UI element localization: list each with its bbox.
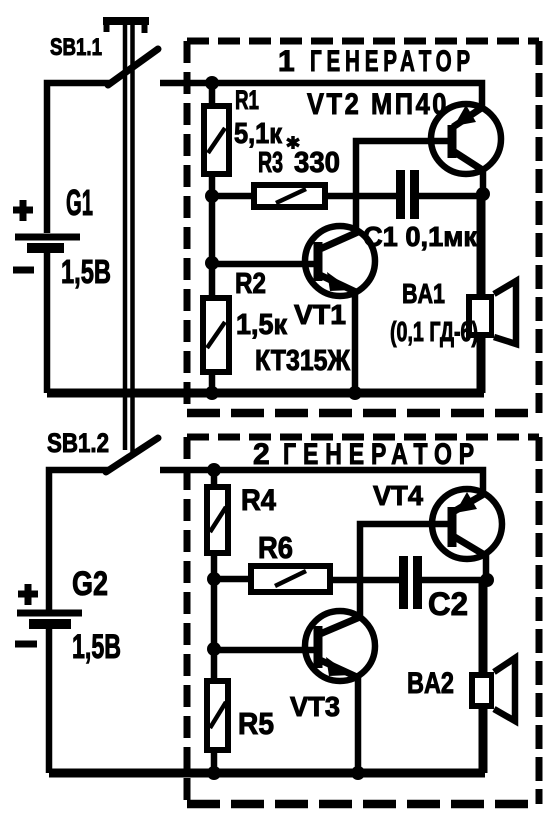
- wire C2 to collector node: [422, 577, 486, 584]
- VT1 emitter diagonal: [320, 275, 356, 292]
- transistor VT1 circle: [305, 226, 375, 296]
- resistor R3: [254, 185, 325, 207]
- bottom rail generator 1: [47, 389, 484, 398]
- VT1 base bar: [314, 242, 323, 281]
- battery G2 long plate (+): [17, 610, 82, 617]
- svg-text:R6: R6: [258, 530, 293, 565]
- wire R4 top: [211, 470, 218, 487]
- VT4 base bar: [448, 507, 457, 547]
- svg-text:G2: G2: [72, 565, 108, 603]
- VT2 collector diagonal: [453, 151, 484, 171]
- mechanical link line right: [130, 25, 135, 452]
- dashed enclosure box 1: [187, 41, 539, 413]
- wire VT1 base: [212, 261, 315, 268]
- wire: battery G2 positive to switch SB1.2 pivot: [49, 470, 108, 610]
- wire VT3 base node to R5 top: [211, 579, 218, 681]
- bottom rail generator 2: [49, 769, 485, 778]
- svg-text:R5: R5: [238, 706, 274, 741]
- svg-text:ГЕНЕРАТОР: ГЕНЕРАТОР: [310, 45, 475, 78]
- svg-text:C2: C2: [428, 586, 468, 622]
- battery G2 short plate (-): [29, 619, 71, 629]
- svg-text:1,5к: 1,5к: [236, 309, 287, 341]
- VT2 emitter diagonal: [453, 107, 483, 127]
- speaker BA2 magnet box: [472, 675, 492, 706]
- wire R2 bottom to rail: [209, 372, 216, 393]
- wire VT4 collector down: [483, 554, 490, 580]
- svg-text:(0,1 ГД-6): (0,1 ГД-6): [390, 316, 478, 347]
- resistor R1: [204, 106, 229, 174]
- svg-text:R3: R3: [258, 147, 283, 179]
- VT3 base bar: [314, 626, 323, 668]
- resistor R6: [251, 566, 330, 592]
- junction node dots generator 1: [205, 76, 219, 90]
- wire VT2 collector down: [480, 168, 487, 196]
- transistor VT4 circle: [432, 489, 502, 559]
- wire VT1 emitter to rail: [352, 290, 359, 393]
- wire R6 to C2: [330, 577, 399, 584]
- VT3 emitter diagonal: [320, 660, 357, 677]
- VT2 emitter arrow: [454, 105, 476, 126]
- wire R1 top: [209, 83, 216, 106]
- wire: top rail of generator 1 (switch contact to VT2 emitter corner): [160, 83, 482, 110]
- wire R4 bottom: [211, 553, 218, 579]
- push-button actuator bar (top T): [103, 17, 149, 25]
- resistor R2: [203, 298, 229, 372]
- svg-text:R1: R1: [235, 85, 259, 115]
- wire node to R6: [214, 576, 251, 583]
- wire: VT3 collector riser and VT4 base wire: [360, 524, 452, 618]
- resistor R4: [207, 487, 228, 553]
- wire R1 bottom to node: [209, 174, 216, 196]
- wire C1 to collector node: [419, 193, 483, 200]
- wire VT3 base: [214, 647, 315, 654]
- svg-text:SB1.1: SB1.1: [50, 34, 102, 61]
- svg-text:R4: R4: [241, 484, 276, 517]
- svg-text:5,1к: 5,1к: [234, 118, 282, 150]
- wire node to R2 top: [209, 196, 216, 298]
- VT3 collector diagonal: [320, 617, 360, 634]
- wire R3 to C1: [325, 193, 397, 200]
- svg-text:1,5В: 1,5В: [72, 628, 121, 666]
- wire node to speaker BA1: [477, 196, 486, 393]
- svg-text:VT3: VT3: [290, 691, 340, 722]
- svg-text:SB1.2: SB1.2: [47, 428, 109, 458]
- VT1 emitter arrow: [327, 272, 352, 291]
- wire: top rail of generator 2: [160, 470, 483, 497]
- svg-text:КТ315Ж: КТ315Ж: [255, 345, 351, 377]
- svg-text:R2: R2: [235, 268, 266, 300]
- wire R5 bottom to rail: [211, 750, 218, 773]
- svg-text:C1 0,1мк: C1 0,1мк: [363, 221, 478, 252]
- transistor VT2 circle: [431, 104, 501, 174]
- dashed enclosure box 2: [187, 437, 539, 804]
- wire: battery G2 negative down to bottom rail: [46, 627, 53, 773]
- VT4 emitter diagonal: [453, 494, 484, 512]
- speaker BA1 cone: [494, 281, 516, 344]
- wire node to speaker BA2: [479, 580, 488, 773]
- plus symbol G1: [13, 200, 33, 221]
- battery G1 short plate (-): [27, 243, 64, 253]
- wire VT3 emitter to rail: [355, 675, 362, 773]
- speaker BA1 magnet box: [469, 297, 492, 335]
- svg-text:ГЕНЕРАТОР: ГЕНЕРАТОР: [283, 438, 481, 471]
- VT4 collector diagonal: [453, 536, 488, 557]
- junction node dots generator 2: [207, 463, 221, 477]
- svg-text:2: 2: [253, 438, 270, 471]
- mechanical link line left: [123, 25, 128, 450]
- switch SB1.2 lever: [106, 438, 158, 472]
- VT3 emitter arrow: [326, 657, 351, 676]
- svg-text:BA1: BA1: [402, 278, 445, 309]
- svg-text:VT4: VT4: [373, 480, 423, 511]
- svg-text:VT1: VT1: [294, 299, 346, 330]
- capacitor C2 plates: [399, 556, 408, 609]
- wire: battery G1 negative down to bottom rail: [44, 251, 51, 393]
- svg-text:G1: G1: [66, 182, 93, 223]
- resistor R5: [207, 681, 228, 750]
- speaker BA2 cone: [494, 658, 515, 721]
- svg-text:1,5В: 1,5В: [61, 253, 111, 290]
- svg-text:330: 330: [294, 147, 340, 179]
- minus symbol G2: [15, 641, 37, 648]
- VT1 collector diagonal: [320, 232, 358, 249]
- battery G1 long plate (+): [15, 234, 80, 241]
- asterisk mark: [287, 136, 299, 149]
- wire: VT1 collector riser and VT2 base wire: [356, 141, 452, 231]
- VT2 base bar: [448, 125, 457, 158]
- wire: battery G1 positive to switch SB1.1 pivot: [47, 83, 110, 233]
- svg-text:VT2 МП40: VT2 МП40: [307, 88, 449, 121]
- minus symbol G1: [13, 267, 34, 274]
- switch SB1.1 lever: [108, 49, 158, 85]
- svg-text:BA2: BA2: [407, 667, 454, 700]
- svg-text:1: 1: [278, 45, 295, 78]
- transistor VT3 circle: [305, 611, 375, 681]
- wire node to R3: [212, 193, 254, 200]
- plus symbol G2: [18, 584, 38, 605]
- VT4 emitter arrow: [455, 492, 477, 513]
- capacitor C1 plates: [396, 170, 405, 219]
